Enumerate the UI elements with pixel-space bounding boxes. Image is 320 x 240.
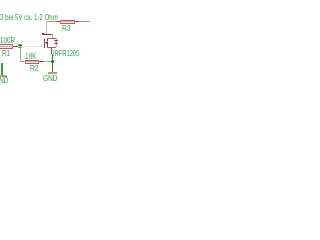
resistor R3 body bbox=[60, 20, 75, 24]
pin blob square on drain wire bbox=[42, 33, 44, 36]
transistor Q1 source connect bar bbox=[47, 47, 56, 48]
label R2 bbox=[30, 64, 38, 72]
label GND (left ground, partly off-screen) bbox=[0, 76, 9, 84]
wire left GND vertical (green) bbox=[1, 63, 2, 76]
wire R1 right stub (red) bbox=[13, 46, 18, 47]
resistor R2 mid pin line bbox=[25, 61, 40, 62]
body diode cathode bar bbox=[54, 40, 58, 41]
transistor Q1 substrate arrow bbox=[45, 41, 49, 45]
wire R2 to GND net (green) bbox=[45, 61, 53, 62]
node junction dot at source/GND net bbox=[51, 60, 55, 64]
wire R2 right stub (red) bbox=[39, 61, 44, 62]
wire source to GND vertical (solid green) bbox=[52, 54, 53, 71]
node junction dot at gate net bbox=[18, 44, 22, 48]
transistor Q1 drain connect bar bbox=[47, 38, 56, 39]
ground symbol bar (left, partly off-screen) bbox=[0, 75, 7, 76]
body diode branch vertical bbox=[56, 38, 57, 47]
resistor R1 body bbox=[0, 44, 13, 49]
resistor R1 mid pin line bbox=[0, 46, 13, 47]
node corner dot at R3 left bend bbox=[46, 21, 48, 23]
wire elbow to R2 left bbox=[20, 61, 25, 62]
wire gate net vertical down to R2 bbox=[20, 46, 21, 62]
body diode triangle bbox=[54, 41, 59, 45]
transistor Q1 channel dash top bbox=[47, 38, 48, 41]
label 100R (value of R1) bbox=[0, 36, 15, 44]
wire gate net horizontal (pale green) bbox=[18, 46, 44, 47]
transistor Q1 gate bar bbox=[44, 39, 45, 48]
resistor R2 body bbox=[25, 60, 40, 64]
label R3 bbox=[62, 24, 71, 32]
wire drain vertical (pale red) bbox=[52, 34, 53, 39]
resistor R3 mid pin line bbox=[60, 21, 75, 22]
transistor Q1 channel dash middle bbox=[47, 42, 48, 45]
wire R3 right stub (red) bbox=[75, 21, 79, 22]
wire R3 left stub darker overlap bbox=[56, 21, 60, 22]
comment text "3 bei 5V ca. 1-2 Ohm" bbox=[0, 13, 58, 21]
transistor Q1 source pin (red) bbox=[51, 48, 52, 54]
label GND (center ground) bbox=[43, 74, 58, 82]
wire R3 left net horizontal (pale red) bbox=[46, 21, 60, 22]
wire R3 left net vertical (pale red) bbox=[46, 21, 47, 34]
ground symbol stub (center) bbox=[52, 71, 53, 73]
wire drain horizontal (dark red) bbox=[44, 34, 53, 35]
ground symbol bar (center) bbox=[48, 72, 58, 73]
transistor Q1 channel dash bottom bbox=[47, 45, 48, 48]
label IRFR1205 (value of Q1) bbox=[53, 49, 79, 57]
wire R3 right net (green, to edge) bbox=[79, 21, 90, 22]
label 18K (value of R2) bbox=[25, 52, 36, 60]
label R1 bbox=[2, 49, 10, 57]
